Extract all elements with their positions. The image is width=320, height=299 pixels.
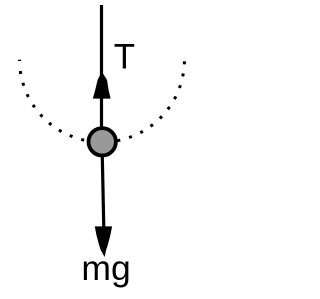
arc dot 3 [26,94,30,98]
wire: weight line [102,157,104,228]
arc dot 6 [48,122,52,126]
arc dot 19 [178,85,182,89]
arrowhead of vector mg (pointing down) [95,226,112,257]
arc dot 8 [69,134,73,138]
arc dot 9 [81,138,85,142]
arc dot 11 (hidden behind bob) [105,140,108,143]
dotted arc: pendulum swing path [18,60,186,144]
arc dot 10 (hidden behind bob) [93,140,96,143]
arrowhead of vector T (pointing up) [93,72,111,99]
arc dot 20 [181,73,185,77]
wire: string / tension line [100,5,103,129]
arc dot 13 [129,135,133,139]
arc dot 21 [183,61,186,64]
arc dot 7 [58,129,62,133]
arc dot 4 [32,104,36,108]
arc dot 12 (nub at bob edge) [117,139,121,143]
svg-text:T: T [114,38,135,77]
arc dot 18 [173,96,177,100]
arc dot 1 [19,71,22,74]
arc dot 16 [159,115,163,119]
arc dot 17 [167,106,171,110]
arc dot 5 [39,113,43,117]
arc dot 14 [140,130,144,134]
svg-text:mg: mg [81,248,130,288]
arc dot 0 (clipped dash) [18,60,21,61]
node: pendulum bob [89,128,116,155]
arc dot 15 [150,123,154,127]
arc dot 2 [21,82,25,86]
